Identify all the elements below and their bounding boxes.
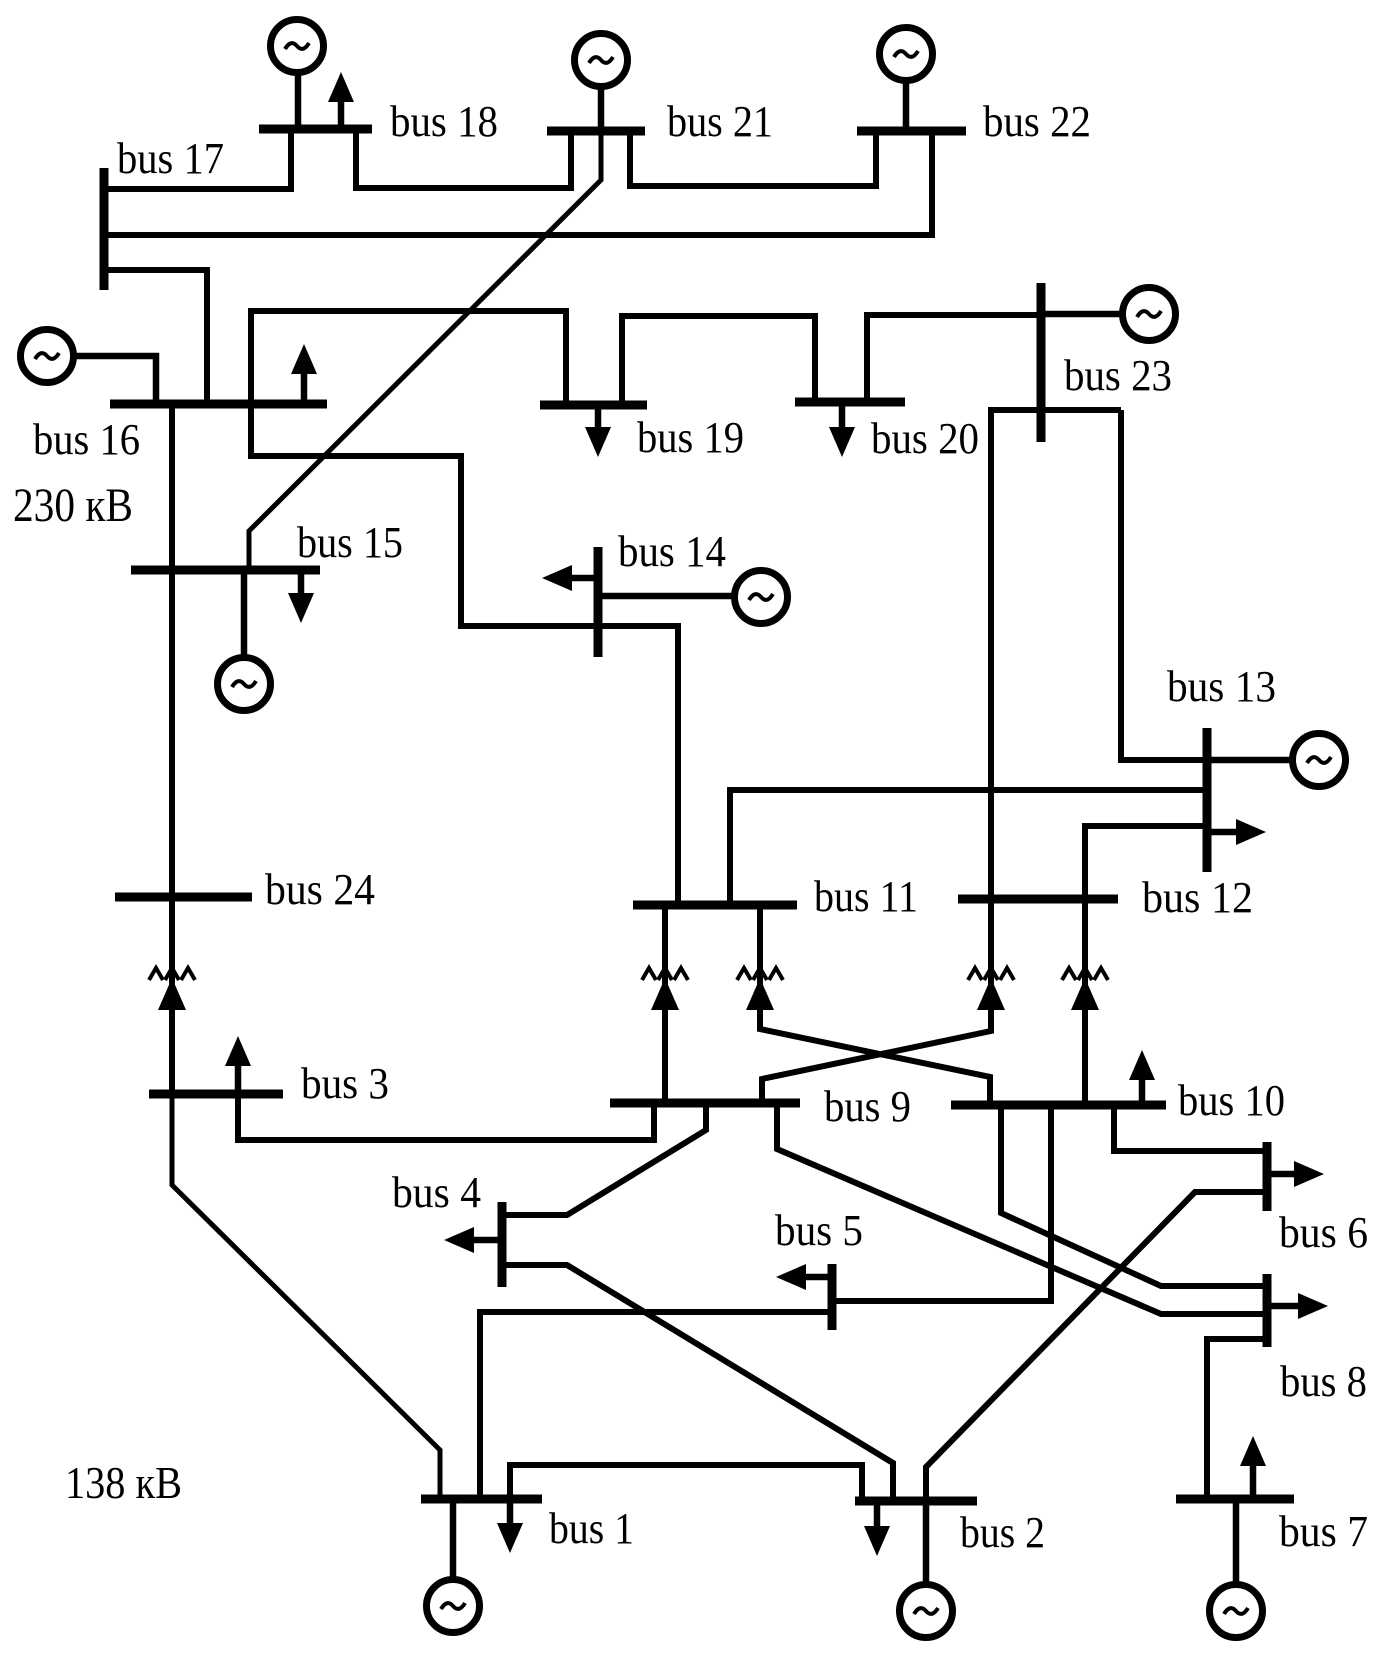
svg-text:bus 10: bus 10: [1178, 1076, 1285, 1125]
wire 6-10: [1114, 1105, 1267, 1151]
bus bar 13: [1203, 728, 1212, 872]
load arrow bus 15: [288, 570, 314, 623]
svg-text:bus 9: bus 9: [824, 1082, 911, 1131]
transformer 9-11: [642, 968, 688, 1010]
wire 15-24: [169, 570, 175, 897]
wire 1-2: [510, 1465, 862, 1501]
svg-text:bus 13: bus 13: [1167, 662, 1276, 711]
generator G23: [1041, 288, 1176, 341]
bus bar 10: [951, 1101, 1166, 1110]
wire 15-16: [169, 404, 175, 570]
bus bar 12: [958, 895, 1118, 904]
svg-text:bus 7: bus 7: [1279, 1507, 1368, 1556]
wire 12-13: [1085, 826, 1207, 899]
wire 8-9: [777, 1103, 1267, 1314]
generator G2: [900, 1501, 953, 1638]
wire 14-16: [251, 404, 598, 626]
wire 20-23: [867, 315, 1041, 402]
svg-text:bus 11: bus 11: [814, 872, 918, 921]
bus bar 24: [115, 893, 252, 902]
wire 7-8: [1207, 1339, 1267, 1499]
load arrow bus 6: [1267, 1161, 1324, 1187]
bus bar 4: [498, 1202, 507, 1287]
svg-text:bus 4: bus 4: [392, 1168, 481, 1217]
wire 8-10: [1001, 1105, 1267, 1286]
bus bar 6: [1263, 1142, 1272, 1211]
load arrow bus 5: [776, 1264, 832, 1290]
transformer 10-11: [737, 968, 783, 1010]
svg-text:bus 21: bus 21: [667, 97, 773, 146]
wire 2-6: [926, 1192, 1267, 1501]
svg-text:bus 24: bus 24: [265, 865, 375, 914]
load arrow bus 18: [328, 72, 354, 129]
svg-text:bus 6: bus 6: [1279, 1208, 1368, 1257]
bus bar 21: [547, 127, 645, 136]
bus bar 14: [594, 547, 603, 657]
bus bar 17: [100, 168, 109, 290]
load arrow bus 2: [864, 1501, 890, 1556]
load arrow bus 3: [225, 1036, 251, 1094]
generator G16: [21, 330, 157, 405]
svg-text:bus 1: bus 1: [549, 1504, 634, 1553]
wire 9-11 transformer branch: [662, 905, 668, 1103]
generator G15: [218, 570, 271, 711]
transformer 9-12: [968, 968, 1014, 1010]
load arrow bus 16: [291, 344, 317, 404]
load arrow bus 4: [444, 1227, 502, 1253]
wire 9-12 transformer branch: [762, 899, 991, 1103]
bus bar 23: [1037, 283, 1046, 442]
wire 16-19: [251, 311, 566, 405]
bus bar 18: [259, 125, 372, 134]
svg-text:bus 14: bus 14: [618, 527, 726, 576]
transformer 24-3: [149, 968, 195, 1010]
generator G1: [427, 1499, 480, 1633]
wire 17-22: [104, 131, 932, 235]
svg-text:bus 16: bus 16: [33, 415, 140, 464]
wire 17-18: [104, 129, 291, 189]
wire 13-23: [1121, 410, 1207, 760]
wire 24-3 transformer branch: [169, 897, 175, 1094]
load arrow bus 8: [1267, 1293, 1328, 1319]
generator G7: [1210, 1499, 1263, 1638]
bus bar 19: [540, 401, 647, 410]
wire 19-20: [622, 316, 815, 405]
bus bar 11: [633, 901, 797, 910]
wire 11-14: [598, 626, 678, 905]
generator G14: [598, 571, 788, 624]
wire 5-10: [832, 1105, 1051, 1301]
bus bar 1: [421, 1495, 542, 1504]
wire 2-4: [502, 1265, 893, 1501]
svg-text:138 кВ: 138 кВ: [65, 1457, 182, 1508]
svg-text:bus 2: bus 2: [960, 1508, 1045, 1557]
load arrow bus 7: [1240, 1436, 1266, 1499]
wire 12-23: [991, 410, 1121, 899]
wire 10-12 transformer branch: [1082, 899, 1088, 1105]
svg-text:bus 3: bus 3: [301, 1059, 389, 1108]
wire 1-5: [480, 1312, 832, 1499]
load arrow bus 20: [829, 402, 855, 457]
generator G22: [880, 28, 933, 132]
wire 10-11 transformer branch: [760, 905, 990, 1105]
bus bar 7: [1176, 1495, 1294, 1504]
load arrow bus 19: [585, 405, 611, 457]
svg-text:bus 17: bus 17: [117, 134, 224, 183]
svg-text:bus 12: bus 12: [1142, 873, 1253, 922]
wire 11-13: [730, 790, 1207, 905]
svg-text:230 кВ: 230 кВ: [13, 479, 133, 532]
wire 4-9: [502, 1103, 706, 1215]
wire 16-17: [104, 270, 207, 404]
generator G18: [271, 20, 324, 130]
transformer 10-12: [1062, 968, 1108, 1010]
svg-text:bus 15: bus 15: [297, 518, 403, 567]
bus bar 15: [131, 566, 320, 575]
bus bar 16: [110, 400, 327, 409]
svg-text:bus 23: bus 23: [1064, 351, 1172, 400]
bus bar 22: [857, 127, 966, 136]
bus bar 3: [149, 1090, 283, 1099]
generator G13: [1207, 734, 1346, 787]
svg-text:bus 8: bus 8: [1280, 1357, 1367, 1406]
bus bar 8: [1263, 1274, 1272, 1347]
svg-text:bus 20: bus 20: [871, 414, 979, 463]
wire 3-9: [238, 1094, 654, 1140]
wire 18-21: [356, 129, 571, 188]
wire 21-22: [630, 131, 876, 186]
generator G21: [575, 34, 628, 132]
load arrow bus 10: [1129, 1050, 1155, 1105]
bus bar 9: [610, 1099, 800, 1108]
svg-text:bus 22: bus 22: [983, 97, 1091, 146]
wire 15-21: [249, 133, 601, 570]
svg-text:bus 19: bus 19: [637, 413, 744, 462]
bus bar 20: [795, 398, 905, 407]
bus bar 5: [828, 1264, 837, 1330]
svg-text:bus 5: bus 5: [775, 1206, 863, 1255]
svg-text:bus 18: bus 18: [390, 97, 498, 146]
load arrow bus 14: [542, 565, 598, 591]
wire 1-3: [172, 1094, 440, 1499]
bus bar 2: [855, 1497, 977, 1506]
load arrow bus 1: [497, 1499, 523, 1553]
load arrow bus 13: [1207, 819, 1266, 845]
